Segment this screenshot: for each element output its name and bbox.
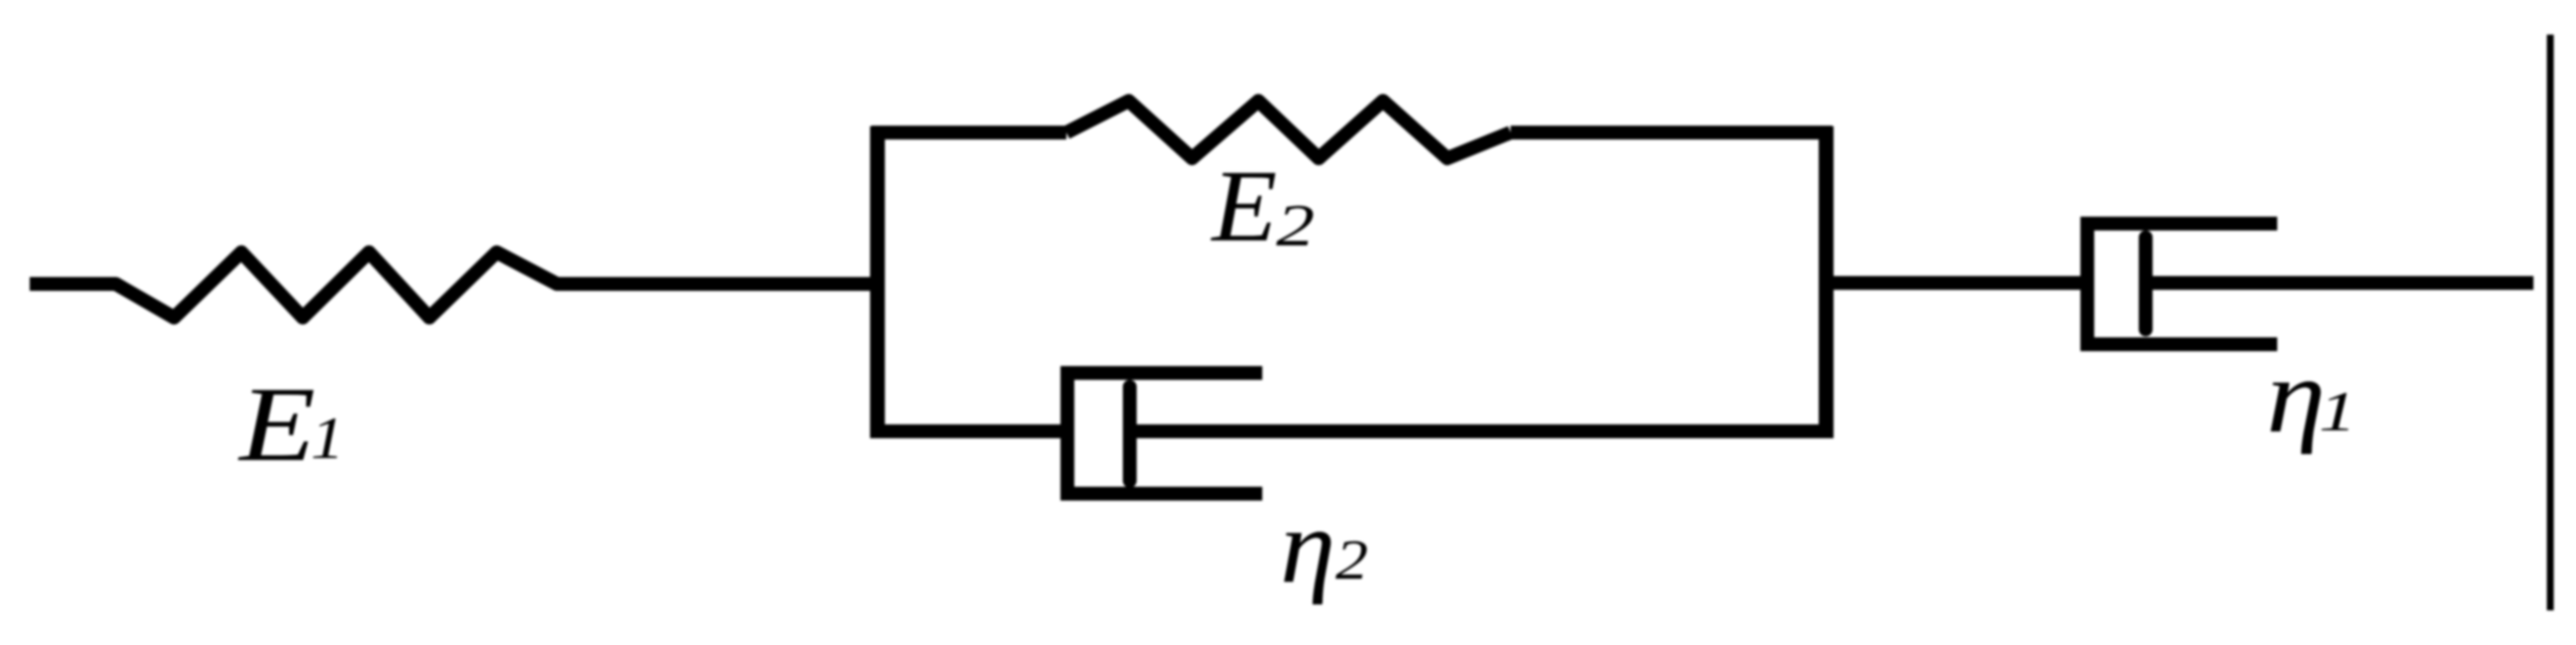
svg-text:1: 1 xyxy=(311,406,344,471)
svg-text:E: E xyxy=(1210,149,1277,263)
svg-text:2: 2 xyxy=(1276,193,1315,258)
svg-text:1: 1 xyxy=(2319,381,2356,443)
svg-text:η: η xyxy=(1280,489,1335,605)
svg-text:η: η xyxy=(2266,338,2326,455)
svg-text:2: 2 xyxy=(1335,529,1368,592)
svg-text:E: E xyxy=(237,366,316,484)
